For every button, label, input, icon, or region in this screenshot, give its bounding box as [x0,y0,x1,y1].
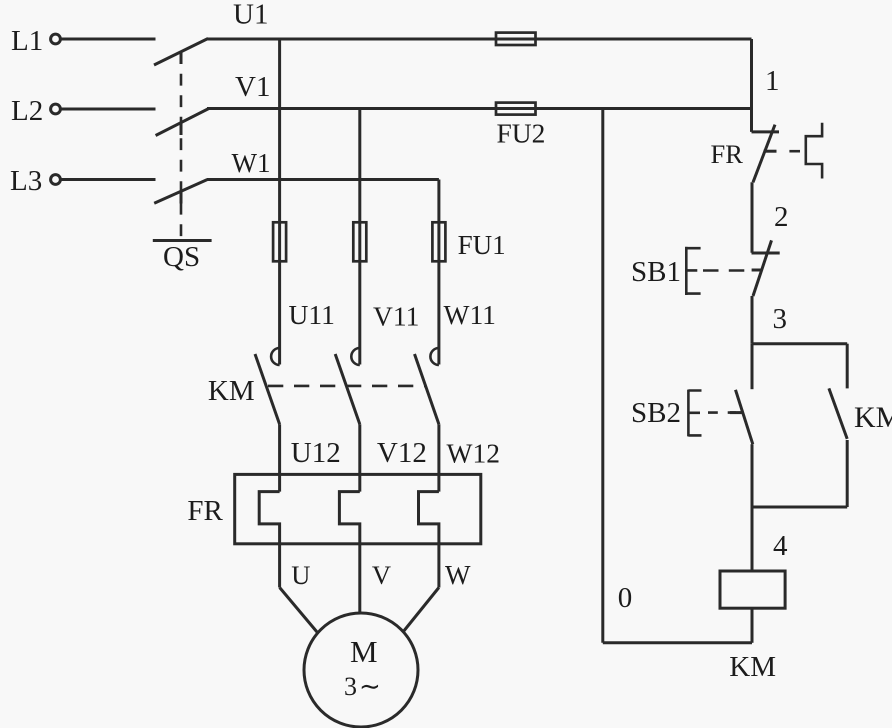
svg-text:W11: W11 [444,299,496,330]
svg-text:U: U [291,560,310,590]
svg-text:W: W [445,560,471,590]
svg-text:FU2: FU2 [497,118,546,149]
svg-text:SB2: SB2 [631,397,681,429]
svg-text:SB1: SB1 [631,256,681,288]
svg-text:FU1: FU1 [458,230,506,260]
svg-text:U11: U11 [289,299,335,330]
svg-text:U1: U1 [233,0,268,31]
svg-text:2: 2 [774,201,789,233]
svg-text:FR: FR [187,495,223,527]
svg-text:3∼: 3∼ [344,672,383,701]
svg-text:L2: L2 [11,95,43,127]
svg-text:V1: V1 [235,71,270,103]
svg-text:KM: KM [854,401,892,434]
svg-text:U12: U12 [291,437,341,469]
svg-text:KM: KM [729,651,776,683]
svg-text:KM: KM [208,375,255,407]
svg-text:L3: L3 [10,165,42,197]
svg-text:FR: FR [711,139,744,169]
svg-text:3: 3 [773,303,788,335]
svg-text:4: 4 [773,530,788,562]
svg-text:M: M [350,634,378,669]
svg-text:V11: V11 [373,301,419,332]
svg-text:V: V [372,560,391,590]
svg-text:W1: W1 [232,148,271,178]
svg-text:L1: L1 [11,25,43,57]
svg-text:V12: V12 [377,437,427,469]
svg-text:W12: W12 [447,438,500,469]
svg-text:QS: QS [163,241,200,273]
svg-text:0: 0 [618,582,633,614]
svg-text:1: 1 [765,65,780,97]
